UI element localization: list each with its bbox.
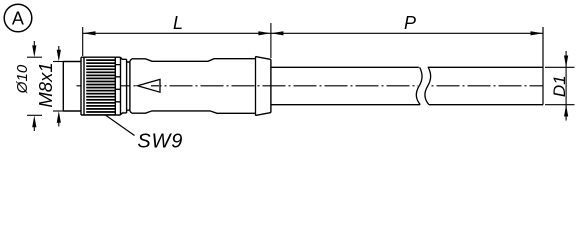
dim Ø10 extension ticks xyxy=(27,56,42,58)
cable break curve right xyxy=(425,67,431,104)
svg-text:L: L xyxy=(173,13,183,33)
svg-text:Ø10: Ø10 xyxy=(14,64,31,94)
dimension P right arrow xyxy=(531,31,544,35)
dim Ø10 vertical line + arrows xyxy=(33,41,35,46)
step ring xyxy=(127,62,130,110)
dimension P line xyxy=(271,32,543,34)
extension line shared L/P xyxy=(270,23,272,58)
body end lip edge xyxy=(255,56,257,115)
svg-text:D1: D1 xyxy=(550,75,569,97)
nut rear collar xyxy=(121,57,127,114)
cable bottom edge xyxy=(271,104,543,106)
coupling nut outline xyxy=(81,57,121,115)
leader line SW9 xyxy=(105,115,135,136)
connector body xyxy=(129,61,131,111)
dim D1 vertical line + arrows xyxy=(565,51,567,121)
body snout taper xyxy=(256,57,271,116)
dimension L left arrow xyxy=(83,31,96,35)
body right edge xyxy=(270,59,272,112)
svg-text:A: A xyxy=(12,9,24,29)
direction arrowhead on centerline xyxy=(138,79,161,92)
svg-text:M8x1: M8x1 xyxy=(35,62,56,107)
dimension P left arrow xyxy=(271,31,284,35)
coupling nut ring grooves xyxy=(115,65,120,102)
centerline dash inside arrowhead xyxy=(151,85,159,87)
dimension L right arrow xyxy=(258,31,271,35)
svg-text:SW9: SW9 xyxy=(137,131,183,152)
extension line / cable end xyxy=(542,27,544,105)
dim D1 extension lines xyxy=(545,66,575,68)
svg-text:P: P xyxy=(404,13,416,33)
thread stub M8 xyxy=(62,62,64,112)
dim M8x1 vertical line + arrows xyxy=(58,46,60,51)
extension line left of L xyxy=(82,27,84,56)
coupling nut white fill xyxy=(82,58,121,115)
coupling nut knurl fill xyxy=(86,58,115,114)
cable top edge xyxy=(271,66,543,68)
centerline xyxy=(77,85,419,87)
dim M8x1 extension ticks xyxy=(53,61,65,63)
view label A circle xyxy=(4,4,32,32)
dimension L line xyxy=(83,32,271,34)
cable break curve left xyxy=(416,67,422,104)
